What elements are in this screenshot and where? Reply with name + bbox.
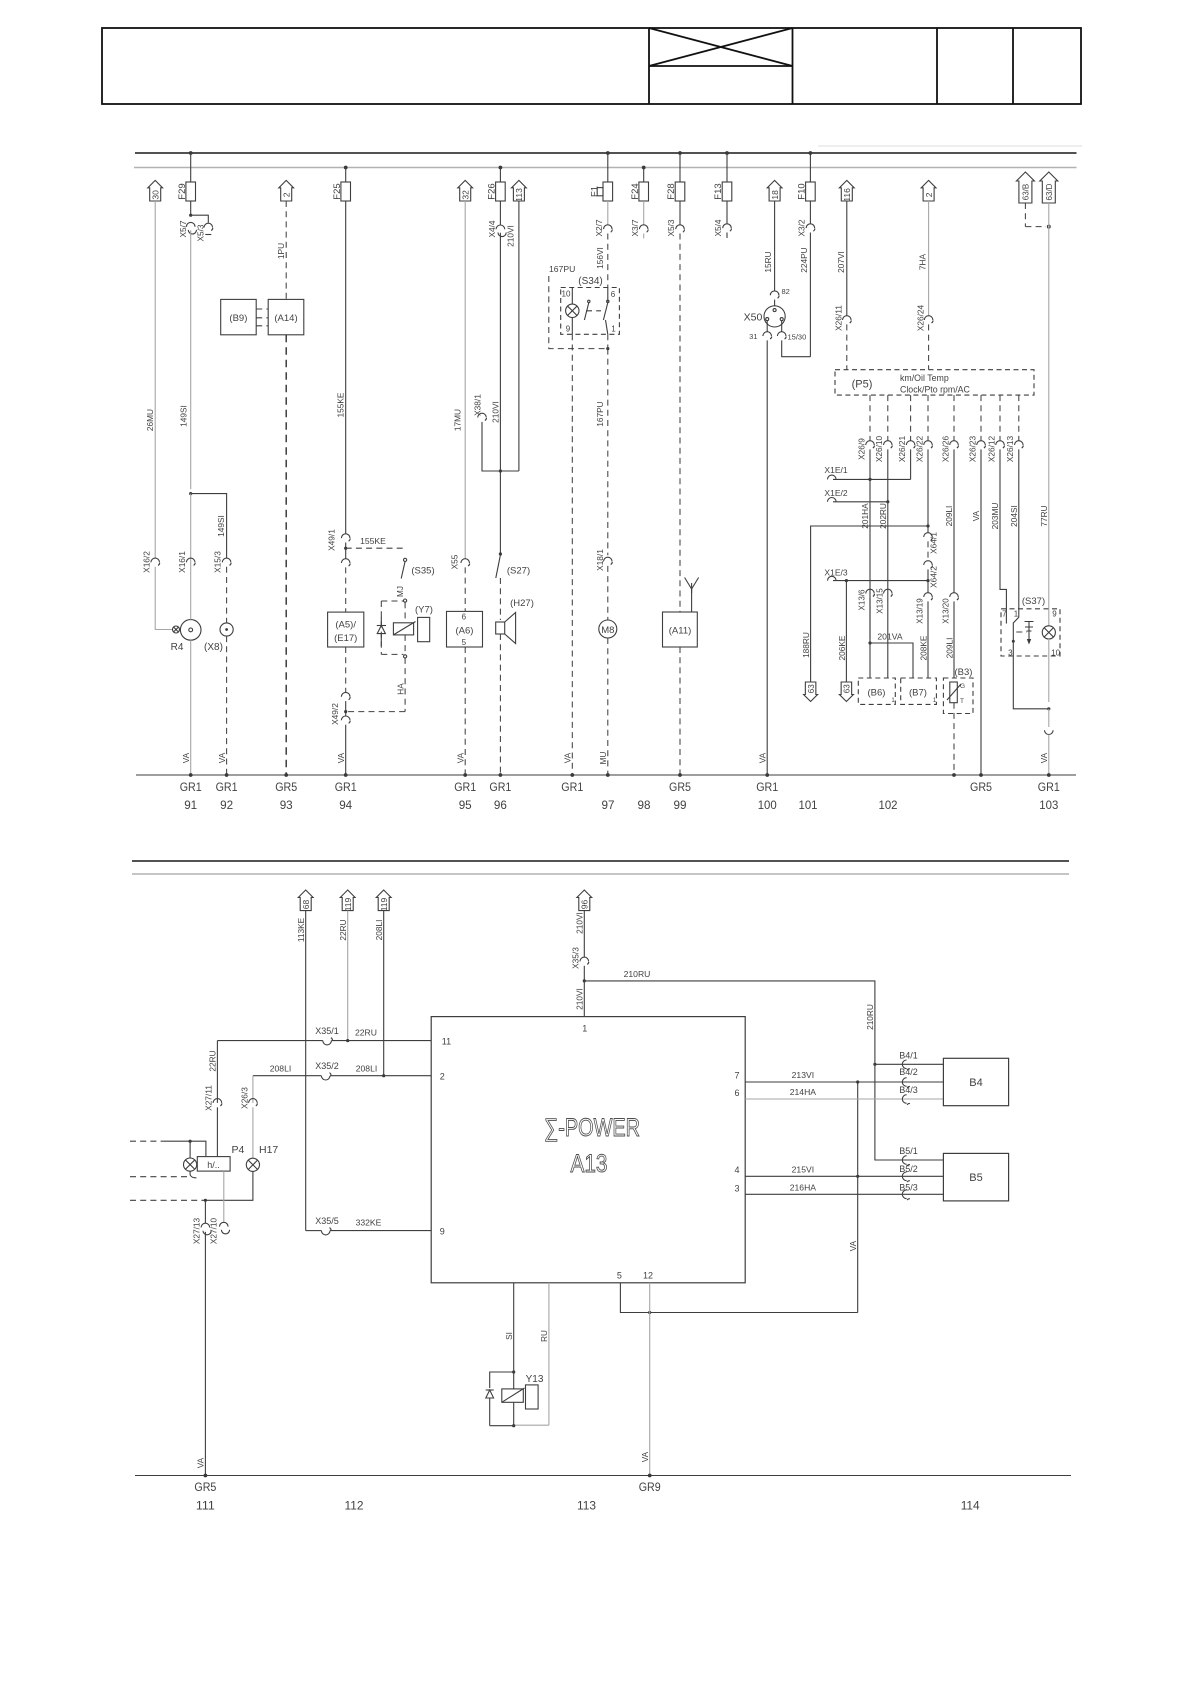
svg-text:h/..: h/.. [207,1160,220,1170]
svg-text:B5/3: B5/3 [899,1182,918,1192]
svg-text:X26/22: X26/22 [914,435,924,462]
svg-text:63/D: 63/D [1045,183,1054,200]
svg-text:X26/24: X26/24 [915,304,925,331]
svg-text:12: 12 [643,1271,653,1281]
svg-text:(A6): (A6) [456,626,474,637]
svg-text:X13/15: X13/15 [875,588,884,614]
svg-text:X27/10: X27/10 [209,1217,219,1244]
svg-text:201HA: 201HA [860,503,870,529]
svg-text:209LI: 209LI [944,638,954,659]
svg-text:X1E/2: X1E/2 [824,488,847,498]
svg-text:VA: VA [563,752,573,763]
svg-text:203MU: 203MU [990,503,1000,530]
svg-text:F26: F26 [487,183,498,199]
svg-text:116: 116 [842,188,852,202]
svg-text:X35/1: X35/1 [315,1026,339,1036]
svg-text:208KE: 208KE [918,635,928,660]
svg-text:10: 10 [562,290,571,299]
svg-text:9: 9 [440,1227,445,1237]
svg-text:214HA: 214HA [790,1087,817,1097]
svg-text:1: 1 [1014,610,1019,619]
svg-text:31: 31 [749,332,757,341]
svg-text:GR1: GR1 [180,780,202,794]
svg-text:X35/5: X35/5 [315,1216,339,1226]
svg-text:GR1: GR1 [454,780,476,794]
svg-text:2: 2 [440,1072,445,1082]
svg-text:97: 97 [602,798,615,812]
svg-text:63: 63 [807,684,816,693]
svg-text:T: T [960,698,964,705]
svg-text:F24: F24 [630,183,641,199]
svg-text:111: 111 [196,1499,215,1513]
svg-text:F29: F29 [177,183,188,199]
svg-text:32: 32 [460,190,470,200]
svg-text:B4/1: B4/1 [899,1050,918,1060]
svg-text:X1E/3: X1E/3 [824,567,847,577]
svg-text:210VI: 210VI [574,912,584,934]
svg-text:VA: VA [456,752,466,763]
svg-text:3: 3 [1008,649,1013,658]
svg-text:4: 4 [734,1165,739,1175]
svg-text:96: 96 [580,900,590,910]
svg-text:P4: P4 [232,1144,245,1156]
svg-text:188RU: 188RU [801,632,811,658]
svg-text:GR1: GR1 [489,780,511,794]
svg-text:F10: F10 [797,183,808,199]
svg-text:X16/2: X16/2 [142,551,152,573]
svg-text:155KE: 155KE [360,536,386,546]
svg-text:B5/1: B5/1 [899,1146,918,1156]
svg-text:167PU: 167PU [595,401,605,426]
svg-text:17MU: 17MU [453,409,463,431]
svg-text:22RU: 22RU [208,1050,218,1071]
svg-text:VA: VA [1039,752,1049,763]
svg-text:(X8): (X8) [204,642,223,653]
svg-text:114: 114 [961,1499,980,1513]
svg-text:X5/4: X5/4 [713,219,723,236]
svg-text:9: 9 [566,325,571,334]
svg-text:X35/2: X35/2 [315,1061,339,1071]
svg-text:91: 91 [184,798,197,812]
svg-text:X26/11: X26/11 [834,305,844,331]
svg-text:210VI: 210VI [505,225,515,247]
svg-text:VA: VA [640,1451,650,1462]
svg-text:Clock/Pto rpm/AC: Clock/Pto rpm/AC [900,385,971,395]
svg-text:GR5: GR5 [970,780,992,794]
svg-text:MU: MU [599,752,608,765]
svg-text:F13: F13 [713,183,724,199]
svg-text:GR1: GR1 [561,780,583,794]
svg-text:1: 1 [611,325,616,334]
svg-text:22RU: 22RU [338,919,348,940]
svg-text:6: 6 [462,613,467,622]
svg-text:112: 112 [345,1499,364,1513]
svg-text:63/B: 63/B [1021,184,1030,200]
svg-text:(S37): (S37) [1022,596,1045,607]
svg-text:149SI: 149SI [179,405,189,427]
svg-text:GR1: GR1 [756,780,778,794]
svg-text:GR1: GR1 [335,780,357,794]
svg-text:2: 2 [281,192,291,197]
svg-text:18: 18 [770,190,780,200]
svg-text:224PU: 224PU [799,247,809,272]
svg-text:1PU: 1PU [276,243,286,259]
svg-text:Y13: Y13 [526,1374,544,1385]
svg-text:X26/10: X26/10 [874,435,884,462]
svg-text:GR5: GR5 [194,1480,216,1494]
svg-text:F28: F28 [666,183,677,199]
svg-text:7: 7 [1002,610,1007,619]
svg-text:GR1: GR1 [216,780,238,794]
svg-text:210VI: 210VI [490,401,500,423]
svg-text:68: 68 [301,900,311,910]
svg-text:X26/26: X26/26 [940,435,950,462]
svg-text:206KE: 206KE [837,635,847,660]
svg-text:5: 5 [617,1271,622,1281]
svg-text:10: 10 [1051,649,1060,658]
svg-text:B4/2: B4/2 [899,1067,918,1077]
svg-text:B5: B5 [969,1172,982,1184]
svg-text:3: 3 [734,1184,739,1194]
svg-text:X3/2: X3/2 [797,219,807,236]
svg-text:113: 113 [577,1499,596,1513]
svg-text:(P5): (P5) [852,379,873,391]
svg-text:(A5)/: (A5)/ [335,620,356,631]
svg-text:6: 6 [611,290,616,299]
svg-text:A13: A13 [571,1150,608,1178]
svg-text:X26/3: X26/3 [240,1087,250,1109]
svg-text:X26/13: X26/13 [1005,435,1015,462]
svg-text:208LI: 208LI [356,1064,378,1074]
svg-text:X38/1: X38/1 [472,394,482,416]
svg-text:119: 119 [343,897,353,911]
svg-text:(B7): (B7) [909,688,927,699]
svg-text:(S35): (S35) [411,566,434,577]
svg-text:98: 98 [638,798,651,812]
svg-text:X13/19: X13/19 [916,598,925,624]
svg-text:MJ: MJ [396,586,405,597]
svg-text:VA: VA [196,1457,206,1468]
svg-text:102: 102 [879,798,898,812]
svg-text:15/30: 15/30 [788,333,807,342]
svg-text:X3/7: X3/7 [630,219,640,236]
svg-text:(S27): (S27) [507,566,530,577]
svg-text:9: 9 [1052,610,1057,619]
svg-text:77RU: 77RU [1039,505,1049,526]
svg-text:X50: X50 [744,312,763,324]
svg-text:92: 92 [220,798,233,812]
svg-text:209LI: 209LI [944,506,954,527]
svg-text:202RU: 202RU [878,503,888,529]
svg-text:GR5: GR5 [275,780,297,794]
svg-text:22RU: 22RU [355,1028,377,1038]
svg-text:96: 96 [494,798,507,812]
svg-text:216HA: 216HA [790,1182,817,1192]
svg-text:F1: F1 [589,186,600,197]
svg-text:11: 11 [442,1037,451,1047]
svg-text:X4/4: X4/4 [487,220,497,237]
svg-text:332KE: 332KE [356,1218,382,1228]
svg-text:201VA: 201VA [877,632,902,642]
svg-text:X26/21: X26/21 [897,435,907,462]
svg-text:156VI: 156VI [595,247,605,269]
svg-text:5: 5 [462,638,467,647]
svg-text:210RU: 210RU [865,1004,875,1030]
svg-text:95: 95 [459,798,472,812]
svg-text:30: 30 [150,190,160,200]
svg-text:F25: F25 [332,183,343,199]
svg-text:∑-POWER: ∑-POWER [544,1114,640,1142]
svg-text:99: 99 [674,798,687,812]
svg-text:X27/11: X27/11 [204,1085,214,1111]
svg-text:213VI: 213VI [792,1070,814,1080]
svg-text:X49/1: X49/1 [327,529,337,551]
svg-text:M8: M8 [601,625,614,636]
svg-text:207VI: 207VI [836,251,846,273]
svg-text:94: 94 [339,798,352,812]
svg-text:215VI: 215VI [792,1164,814,1174]
svg-text:149SI: 149SI [216,515,226,537]
svg-text:HA: HA [396,683,405,695]
svg-text:VA: VA [181,752,191,763]
svg-text:(E17): (E17) [334,633,357,644]
svg-text:82: 82 [782,287,790,296]
svg-text:101: 101 [799,798,818,812]
svg-text:(B9): (B9) [229,313,247,324]
svg-text:B4/3: B4/3 [899,1085,918,1095]
svg-text:GR9: GR9 [639,1480,661,1494]
svg-text:X49/2: X49/2 [330,703,340,725]
svg-text:X35/3: X35/3 [571,947,581,969]
svg-text:X2/7: X2/7 [594,219,604,236]
svg-text:km/Oil Temp: km/Oil Temp [900,373,949,383]
svg-text:VA: VA [758,752,768,763]
svg-text:X27/13: X27/13 [191,1217,201,1244]
svg-text:RU: RU [540,1330,549,1342]
svg-text:93: 93 [280,798,293,812]
svg-text:204SI: 204SI [1009,505,1019,527]
svg-text:119: 119 [379,897,389,911]
svg-text:155KE: 155KE [336,392,346,417]
svg-text:113KE: 113KE [296,917,306,942]
svg-text:113: 113 [514,188,524,202]
svg-text:X5/7: X5/7 [178,220,188,237]
svg-text:(B6): (B6) [868,688,886,699]
svg-text:X26/23: X26/23 [967,435,977,462]
svg-text:(A11): (A11) [669,626,692,637]
svg-text:103: 103 [1039,798,1058,812]
svg-text:VA: VA [217,752,227,763]
svg-text:(H27): (H27) [510,598,534,609]
svg-text:X15/3: X15/3 [212,551,222,573]
svg-text:210RU: 210RU [624,969,651,979]
svg-text:(Y7): (Y7) [415,605,433,616]
svg-text:VA: VA [336,752,346,763]
svg-text:X64/2: X64/2 [929,566,939,588]
svg-text:B4: B4 [969,1077,982,1089]
svg-text:100: 100 [758,798,777,812]
svg-text:2: 2 [924,192,934,197]
svg-text:210VI: 210VI [574,988,584,1010]
svg-text:26MU: 26MU [145,409,155,431]
svg-text:7HA: 7HA [918,253,928,270]
svg-text:X26/9: X26/9 [856,438,866,460]
svg-text:(S34): (S34) [578,276,602,287]
svg-text:X1E/1: X1E/1 [824,465,847,475]
svg-text:X13/20: X13/20 [942,598,951,624]
svg-text:167PU: 167PU [549,264,575,274]
svg-text:208LI: 208LI [270,1064,292,1074]
svg-text:X5/3: X5/3 [666,219,676,236]
svg-text:6: 6 [734,1088,739,1098]
svg-text:VA: VA [848,1240,858,1251]
svg-text:15RU: 15RU [763,251,773,272]
svg-text:GR1: GR1 [1038,780,1060,794]
svg-text:SI: SI [505,1332,514,1340]
svg-text:GR5: GR5 [669,780,691,794]
svg-text:VA: VA [971,510,981,521]
svg-text:(B3): (B3) [955,667,973,678]
svg-text:H17: H17 [259,1144,278,1156]
svg-text:G: G [960,683,965,690]
svg-text:X26/12: X26/12 [986,435,996,462]
svg-text:208LI: 208LI [374,920,384,941]
svg-text:R4: R4 [171,642,184,653]
svg-text:(A14): (A14) [274,313,297,324]
svg-text:X55: X55 [450,554,460,569]
svg-text:1: 1 [582,1024,587,1034]
svg-text:7: 7 [734,1071,739,1081]
svg-text:X16/1: X16/1 [177,551,187,573]
svg-text:X64/1: X64/1 [929,532,939,554]
svg-text:63: 63 [843,684,852,693]
svg-text:B5/2: B5/2 [899,1164,918,1174]
